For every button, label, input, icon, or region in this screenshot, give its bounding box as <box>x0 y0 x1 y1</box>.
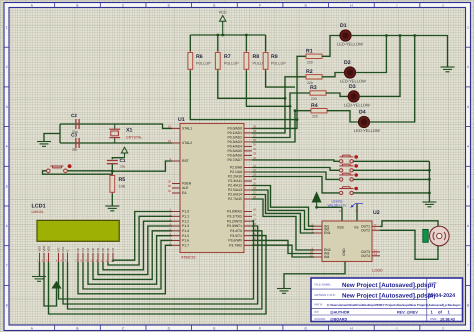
wire net P0.1 <box>252 77 306 133</box>
ground button ground <box>422 202 436 207</box>
svg-text:DESIGN TITLE:: DESIGN TITLE: <box>315 293 336 297</box>
svg-text:P3.6/WR: P3.6/WR <box>228 239 242 243</box>
svg-text:P0.7/AD7: P0.7/AD7 <box>227 158 242 162</box>
title block <box>311 278 463 322</box>
svg-text:C1: C1 <box>120 158 126 163</box>
svg-text:P1.0: P1.0 <box>182 210 189 214</box>
resistor R9 <box>265 51 267 53</box>
svg-text:PATH:: PATH: <box>315 303 324 307</box>
LED D1 <box>340 30 351 41</box>
wire xtal left vertical <box>59 124 61 143</box>
motor driver U2 body <box>322 221 372 262</box>
wire C1 bottom to junction <box>111 164 113 174</box>
svg-text:3: 3 <box>467 105 469 109</box>
svg-text:TIME:: TIME: <box>430 317 438 321</box>
wire R4 to D4 <box>327 111 358 122</box>
svg-text:14: 14 <box>374 252 378 256</box>
svg-text:31: 31 <box>168 189 172 193</box>
wire xtal gnd stub <box>44 134 60 142</box>
power terminal LCD VDD power <box>52 282 60 288</box>
svg-text:4: 4 <box>6 145 8 149</box>
LED D2 <box>344 67 355 78</box>
capacitor C2 <box>76 119 79 129</box>
junction 12V junction <box>315 206 318 209</box>
wire R7 top stem <box>217 35 219 51</box>
ground LCD ground <box>32 277 46 282</box>
microcontroller U1 body <box>180 124 244 253</box>
svg-text:OUT4: OUT4 <box>361 254 370 258</box>
wire R3 to D3 <box>326 93 348 96</box>
svg-text:P0.4/AD4: P0.4/AD4 <box>227 145 242 149</box>
svg-text:GND: GND <box>342 248 346 256</box>
svg-text:LED-YELLOW: LED-YELLOW <box>354 128 380 133</box>
svg-text:P1.4: P1.4 <box>182 229 189 233</box>
LCD screen <box>37 220 119 241</box>
svg-text:LCD1: LCD1 <box>32 204 46 210</box>
wire R9 top stem <box>265 35 267 51</box>
wire button3 right <box>353 178 430 180</box>
svg-text:EN1: EN1 <box>324 231 331 235</box>
svg-text:P0.3/AD3: P0.3/AD3 <box>227 140 242 144</box>
svg-text:XTAL1: XTAL1 <box>182 127 192 131</box>
wire XTAL1 net <box>60 124 172 128</box>
wire P0.7 to button1 <box>252 160 339 161</box>
wire net P0.2 <box>252 93 310 138</box>
resistor R4 <box>311 109 327 113</box>
svg-text:PULLUP: PULLUP <box>271 62 286 66</box>
wire D4 cathode <box>370 36 415 123</box>
wire P2.6 to EN1 <box>252 195 314 234</box>
svg-text:36: 36 <box>253 138 257 142</box>
ground R5 ground <box>105 206 119 211</box>
svg-text:LED-YELLOW: LED-YELLOW <box>340 79 366 84</box>
svg-text:P2.5/A13: P2.5/A13 <box>228 188 242 192</box>
svg-text:D0: D0 <box>76 247 80 251</box>
wire RST wire <box>112 161 172 171</box>
svg-text:VSS: VSS <box>337 226 345 230</box>
wire P1.1 to LCD D6 <box>108 216 172 265</box>
wire D3 cathode <box>359 36 400 97</box>
svg-text:E: E <box>213 3 215 7</box>
svg-text:11: 11 <box>253 213 256 217</box>
wire button left wire <box>43 171 113 174</box>
svg-text:24: 24 <box>253 177 257 181</box>
wire P1.6 to LCD D1 <box>83 240 172 289</box>
svg-text:5: 5 <box>6 184 8 188</box>
U1 left pins <box>168 125 192 248</box>
svg-text:220: 220 <box>311 97 317 101</box>
svg-text:New Project [Autosaved].pdsprj: New Project [Autosaved].pdsprj <box>342 282 436 289</box>
wire R1 to D1 <box>322 36 340 57</box>
svg-text:D1: D1 <box>81 247 85 251</box>
wire D2 cathode <box>356 36 387 73</box>
resistor R6 <box>189 51 191 53</box>
wire P2.1 to button3 <box>252 172 339 179</box>
wire P1.5 to LCD D2 <box>88 236 172 285</box>
svg-text:P2.6/A14: P2.6/A14 <box>228 193 242 197</box>
capacitor C1 <box>107 161 118 164</box>
svg-text:P0.0/AD0: P0.0/AD0 <box>227 127 242 131</box>
junction net1-R7 <box>284 97 287 100</box>
svg-text:CRYSTAL: CRYSTAL <box>126 136 142 140</box>
svg-text:FILE NAME:: FILE NAME: <box>315 283 332 287</box>
wire button4 right <box>353 192 430 194</box>
svg-text:R2: R2 <box>306 69 313 75</box>
svg-text:VEE: VEE <box>47 246 51 252</box>
wire P2.5 to IN2 <box>252 190 314 229</box>
power terminal VCC reset <box>121 147 127 153</box>
svg-text:220: 220 <box>312 115 318 119</box>
push button B2 <box>339 164 353 172</box>
push button reset <box>47 166 68 173</box>
svg-text:RW: RW <box>61 247 65 252</box>
wire R2 to D2 <box>322 73 344 77</box>
capacitor C3 <box>76 138 79 148</box>
resistor R7 <box>217 51 219 53</box>
junction VCC-R8 <box>245 34 248 37</box>
svg-text:RST: RST <box>182 159 189 163</box>
svg-text:F: F <box>259 326 261 330</box>
LED D4 <box>358 116 369 127</box>
push button B1 <box>339 155 353 163</box>
wire 12V to VSS <box>317 206 342 208</box>
wire P1.4 to LCD D3 <box>93 231 172 280</box>
svg-text:C3: C3 <box>71 133 77 138</box>
svg-text:U2: U2 <box>373 210 380 216</box>
wire U2 gnd wire <box>284 262 345 289</box>
svg-text:33p: 33p <box>72 148 78 152</box>
svg-text:@AUTHOR: @AUTHOR <box>330 310 350 314</box>
svg-text:EA: EA <box>182 191 187 195</box>
resistor R8 <box>245 51 247 53</box>
svg-text:P3.1/TXD: P3.1/TXD <box>227 215 242 219</box>
wire LCD VDD wire <box>44 262 57 306</box>
motor terminal block <box>423 229 428 242</box>
svg-text:29: 29 <box>168 180 172 184</box>
wire net P0.3 <box>252 111 311 142</box>
junction net2-R8 <box>289 105 292 108</box>
svg-text:5: 5 <box>467 184 469 188</box>
wire P3.7 to IN4 <box>252 245 314 257</box>
svg-text:R5: R5 <box>119 177 126 183</box>
svg-text:D4: D4 <box>359 110 366 116</box>
svg-text:@BOARD: @BOARD <box>330 317 347 321</box>
svg-text:X1: X1 <box>126 128 132 134</box>
svg-text:of: of <box>438 310 443 315</box>
wire C1 top <box>112 158 124 160</box>
svg-text:P2.1/A9: P2.1/A9 <box>230 170 242 174</box>
ground U2 ground <box>277 289 291 294</box>
LCD pins <box>37 246 115 263</box>
svg-text:B: B <box>76 326 78 330</box>
svg-text:19: 19 <box>168 125 172 129</box>
svg-text:P2.0/A8: P2.0/A8 <box>230 166 242 170</box>
svg-text:R8: R8 <box>253 54 260 60</box>
svg-text:D6: D6 <box>106 247 110 251</box>
wire P3.5 to LCD VEE <box>49 236 267 314</box>
wire net P0.0 <box>252 56 306 128</box>
svg-text:PULLUP: PULLUP <box>224 62 239 66</box>
svg-text:10: 10 <box>253 208 257 212</box>
svg-text:7: 7 <box>467 264 469 268</box>
svg-text:35: 35 <box>253 143 257 147</box>
resistor R2 <box>306 75 322 79</box>
svg-text:1: 1 <box>6 26 8 30</box>
svg-text:P0.5/AD5: P0.5/AD5 <box>227 149 242 153</box>
svg-text:BOARD:: BOARD: <box>315 317 327 321</box>
power terminal VCC <box>220 16 226 22</box>
wire XTAL2 net <box>60 142 172 144</box>
svg-text:E: E <box>66 250 70 252</box>
svg-text:8: 8 <box>6 303 8 307</box>
wire P2.0 to button2 <box>252 168 339 171</box>
wire R5 to gnd <box>111 194 113 207</box>
svg-text:AT89C51: AT89C51 <box>181 256 196 260</box>
junction bbus4 <box>428 192 431 195</box>
svg-text:R6: R6 <box>196 54 203 60</box>
wire R6 to net0 <box>190 71 297 120</box>
svg-text:P2.3/A11: P2.3/A11 <box>228 179 242 183</box>
svg-text:P3.0/RXD: P3.0/RXD <box>227 210 243 214</box>
wire button to junction <box>67 170 112 172</box>
wire P3.3 to LCD RW <box>63 226 258 304</box>
svg-text:New Project [Autosaved].pdsprj: New Project [Autosaved].pdsprj <box>342 292 436 299</box>
svg-text:P3.2/INT0: P3.2/INT0 <box>227 219 242 223</box>
svg-text:39: 39 <box>253 125 257 129</box>
wire P2.2 to button4 <box>252 177 339 193</box>
svg-text:D5: D5 <box>101 247 105 251</box>
power terminal 12V terminal <box>312 193 320 203</box>
svg-text:XTAL2: XTAL2 <box>182 141 192 145</box>
junction RST junction <box>111 170 114 173</box>
svg-text:P0.1/AD1: P0.1/AD1 <box>227 131 242 135</box>
junction net0-R6 <box>296 118 299 121</box>
svg-text:P1.1: P1.1 <box>182 215 189 219</box>
svg-text:VCC: VCC <box>219 10 227 14</box>
svg-text:2: 2 <box>467 65 469 69</box>
svg-text:6: 6 <box>6 224 8 228</box>
push button B3 <box>339 173 353 181</box>
svg-text:18: 18 <box>168 139 172 143</box>
ground crystal ground <box>37 142 51 147</box>
wire P1.0 to LCD D7 <box>113 212 172 263</box>
svg-text:220: 220 <box>307 60 313 64</box>
svg-text:PULLUP: PULLUP <box>196 62 211 66</box>
svg-text:R4: R4 <box>311 103 318 109</box>
svg-text:P2.2/A10: P2.2/A10 <box>228 175 242 179</box>
wire button1 right <box>353 160 430 162</box>
wire OUT2 to motor <box>380 230 438 259</box>
junction bbus2 <box>428 169 431 172</box>
svg-text:220: 220 <box>307 81 313 85</box>
wire LCD VSS to gnd <box>39 262 41 277</box>
svg-text:C:\Users\amani\OneDrive\Deskto: C:\Users\amani\OneDrive\Desktop\VENKY Pr… <box>327 303 461 307</box>
junction bus-D2 <box>385 34 388 37</box>
junction bus-D4 <box>413 34 416 37</box>
svg-text:I: I <box>397 3 398 7</box>
push button B4 <box>339 187 353 195</box>
svg-text:P2.4/A12: P2.4/A12 <box>228 184 242 188</box>
junction net3-R4 <box>294 109 297 112</box>
wire R6 top stem <box>189 35 191 51</box>
svg-text:PSEN: PSEN <box>182 182 192 186</box>
svg-text:P3.3/INT1: P3.3/INT1 <box>227 224 242 228</box>
svg-text:VDD: VDD <box>42 246 46 252</box>
svg-text:R9: R9 <box>271 54 278 60</box>
motor M1 <box>430 226 450 246</box>
wire VSS stub <box>341 207 343 221</box>
svg-text:P1.3: P1.3 <box>182 224 189 228</box>
resistor R3 <box>310 91 326 95</box>
wire P2.4 to IN1 <box>252 186 314 227</box>
wire R8 top stem <box>245 35 247 51</box>
svg-text:U1: U1 <box>178 117 185 123</box>
svg-text:C2: C2 <box>71 113 77 118</box>
wire P2.7 to EN2 <box>252 199 314 250</box>
junction bus-D3 <box>399 34 402 37</box>
svg-text:P3.5/T1: P3.5/T1 <box>230 234 242 238</box>
svg-text:D4: D4 <box>96 247 100 251</box>
svg-text:6: 6 <box>467 224 469 228</box>
junction VCC-stem <box>221 34 224 37</box>
svg-text:R3: R3 <box>310 85 317 91</box>
wire P3.6 to IN3 <box>252 240 314 253</box>
svg-text:OUT2: OUT2 <box>361 229 370 233</box>
svg-text:D1: D1 <box>340 23 347 29</box>
svg-text:E: E <box>213 326 215 330</box>
junction bbus3 <box>428 178 431 181</box>
svg-text:P1.7: P1.7 <box>182 244 189 248</box>
svg-text:15: 15 <box>310 253 314 257</box>
svg-text:P3.4/T0: P3.4/T0 <box>230 229 242 233</box>
wire P1.7 to LCD D0 <box>78 245 172 293</box>
svg-text:10K: 10K <box>119 185 126 189</box>
wire VS stub <box>356 204 358 222</box>
svg-text:38: 38 <box>253 129 257 133</box>
svg-text:D3: D3 <box>91 247 95 251</box>
wire R9 to net3 <box>266 71 295 88</box>
wire OUT1 to motor <box>380 221 438 227</box>
svg-text:16: 16 <box>339 209 343 213</box>
svg-text:L293D: L293D <box>372 269 383 273</box>
svg-text:LED-YELLOW: LED-YELLOW <box>344 102 370 107</box>
svg-text:37: 37 <box>253 134 257 138</box>
svg-text:B: B <box>76 3 78 7</box>
svg-text:IN4: IN4 <box>324 255 329 259</box>
svg-text:P1.6: P1.6 <box>182 239 189 243</box>
svg-text:R7: R7 <box>224 54 231 60</box>
svg-text:R1: R1 <box>306 49 313 55</box>
svg-text:P0.6/AD6: P0.6/AD6 <box>227 154 242 158</box>
svg-text:P2.7/A15: P2.7/A15 <box>228 197 242 201</box>
svg-text:VS: VS <box>354 226 359 230</box>
U2 right pins <box>361 223 380 258</box>
U1 right pins <box>227 125 257 248</box>
crystal X1 <box>109 124 120 143</box>
svg-text:D2: D2 <box>344 60 351 66</box>
svg-text:P0.2/AD2: P0.2/AD2 <box>227 136 242 140</box>
wire P3.4 to LCD E <box>68 231 262 309</box>
ground LED bus ground <box>441 67 455 72</box>
svg-text:7: 7 <box>6 264 8 268</box>
wire button2 right <box>353 169 430 171</box>
svg-text:25-04-2024: 25-04-2024 <box>428 293 456 299</box>
wire R8 to net2 <box>246 71 290 107</box>
svg-text:BY:: BY: <box>315 310 320 314</box>
wire LED cathode bus <box>351 36 447 68</box>
junction VCC-R7 <box>216 34 219 37</box>
svg-text:P3.7/RD: P3.7/RD <box>229 244 242 248</box>
svg-text:ALE: ALE <box>182 186 189 190</box>
wire R7 to net1 <box>218 71 285 99</box>
wire VCC rail <box>190 34 265 36</box>
svg-text:33: 33 <box>253 152 257 156</box>
svg-text:3: 3 <box>6 105 8 109</box>
svg-text:I: I <box>397 326 398 330</box>
resistor R5 <box>111 174 113 176</box>
svg-text:D7: D7 <box>111 247 115 251</box>
svg-text:D2: D2 <box>86 247 90 251</box>
svg-text:P1.5: P1.5 <box>182 234 189 238</box>
U2 left pins <box>310 223 331 260</box>
svg-text:VALUE=12V: VALUE=12V <box>328 204 348 208</box>
svg-text:8: 8 <box>467 303 469 307</box>
svg-text:2: 2 <box>6 65 8 69</box>
wire P1.3 to LCD D4 <box>98 226 172 275</box>
svg-text:D3: D3 <box>349 84 356 90</box>
svg-text:P1.2: P1.2 <box>182 219 189 223</box>
svg-text:LED-YELLOW: LED-YELLOW <box>337 42 363 47</box>
svg-text:RS: RS <box>57 247 61 251</box>
svg-text:VSS: VSS <box>38 246 42 252</box>
svg-text:REV: @REV: REV: @REV <box>397 310 418 314</box>
wire button gnd bus <box>428 161 430 202</box>
LED D3 <box>348 91 359 102</box>
wire P1.2 to LCD D5 <box>103 221 172 270</box>
svg-text:34: 34 <box>253 147 257 151</box>
svg-text:10:38:43: 10:38:43 <box>440 317 455 321</box>
svg-text:10u: 10u <box>120 165 126 169</box>
wire P3.2 to LCD RS <box>59 221 254 299</box>
svg-text:30: 30 <box>168 184 172 188</box>
svg-text:4: 4 <box>467 145 469 149</box>
svg-text:1: 1 <box>467 26 469 30</box>
svg-text:LM016L: LM016L <box>32 210 44 214</box>
resistor R1 <box>306 54 322 58</box>
svg-text:F: F <box>259 3 261 7</box>
